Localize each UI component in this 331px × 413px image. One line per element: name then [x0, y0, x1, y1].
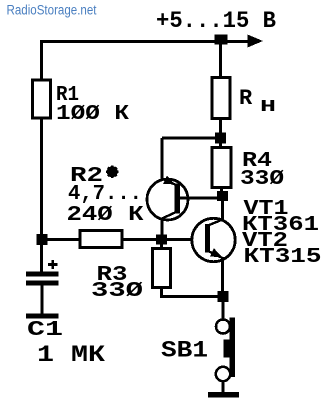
ground C1 — [26, 314, 59, 319]
arrow supply — [248, 35, 264, 48]
wire RH lead — [219, 42, 222, 79]
resistor R4 — [212, 148, 231, 188]
node junction J2 — [215, 133, 226, 144]
wire R4 to J3 — [220, 188, 223, 198]
wire SB1 to ground — [222, 381, 225, 393]
svg-text:R: R — [239, 86, 253, 111]
svg-text:RadioStorage.net: RadioStorage.net — [7, 3, 97, 18]
resistor RH — [212, 78, 230, 119]
wire VT2 collector lead — [221, 196, 224, 220]
node junction J1 — [215, 35, 228, 45]
capacitor C1 plates — [26, 272, 59, 277]
ground SB1 — [208, 392, 239, 398]
svg-text:24Ø К: 24Ø К — [67, 204, 144, 227]
wire VT1 base lead — [180, 197, 222, 200]
svg-text:1ØØ К: 1ØØ К — [56, 103, 129, 126]
wire top rail — [42, 40, 249, 43]
svg-text:+5...15 В: +5...15 В — [156, 8, 276, 34]
wire RH to J2 — [219, 118, 222, 148]
svg-text:SB1: SB1 — [161, 338, 208, 364]
resistor R2 — [80, 231, 122, 248]
node junction J5 — [37, 234, 48, 245]
wire base net — [42, 238, 205, 241]
svg-text:33Ø: 33Ø — [91, 280, 144, 303]
node junction J6 — [218, 291, 229, 302]
wire VT1 collector lead — [161, 218, 164, 240]
polarity plus C1 — [48, 260, 58, 269]
svg-text:КТ315: КТ315 — [244, 246, 322, 269]
resistor R1 — [33, 80, 51, 118]
resistor R3 — [160, 240, 163, 250]
node junction J4 — [156, 235, 167, 245]
wire R3 bottom — [162, 288, 224, 297]
button SB1 — [222, 297, 225, 321]
transistor VT2 — [192, 218, 235, 261]
svg-text:Н: Н — [260, 98, 276, 117]
svg-text:4,7...: 4,7... — [68, 183, 142, 206]
transistor VT1 — [147, 176, 188, 220]
svg-text:C1: C1 — [27, 319, 63, 342]
svg-text:1 МК: 1 МК — [37, 342, 105, 368]
svg-text:33Ø: 33Ø — [240, 168, 284, 191]
wire VT2 emitter lead — [221, 257, 224, 292]
node junction J3 — [217, 191, 228, 201]
wire VT1 emitter net — [162, 138, 221, 180]
wire left rail — [40, 40, 43, 272]
